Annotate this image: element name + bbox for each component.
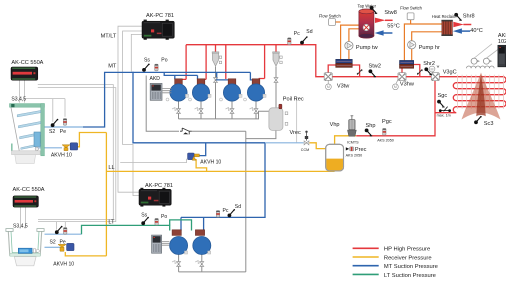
svg-text:Po: Po <box>161 214 167 220</box>
svg-text:HP High Pressure: HP High Pressure <box>384 247 430 253</box>
svg-text:AKS 2050: AKS 2050 <box>346 154 363 158</box>
svg-text:Shr2: Shr2 <box>423 61 435 67</box>
svg-text:V3gC: V3gC <box>443 70 457 76</box>
svg-text:AKVH 10: AKVH 10 <box>200 160 221 166</box>
svg-text:AK-CC 550A: AK-CC 550A <box>13 187 45 193</box>
svg-text:Flow Switch: Flow Switch <box>400 6 423 11</box>
svg-text:AK-CC 550A: AK-CC 550A <box>11 60 43 66</box>
svg-text:V3hw: V3hw <box>400 82 415 88</box>
svg-text:Poil Rec: Poil Rec <box>283 97 304 103</box>
svg-text:Ss: Ss <box>144 58 150 64</box>
svg-text:AKD: AKD <box>150 76 161 82</box>
svg-text:Sgc: Sgc <box>438 93 448 99</box>
svg-text:Vhp: Vhp <box>330 122 340 128</box>
svg-text:Shp: Shp <box>366 123 376 129</box>
svg-text:Ss: Ss <box>141 213 147 219</box>
svg-text:S3,4,5: S3,4,5 <box>11 97 26 103</box>
svg-text:Shr8: Shr8 <box>463 14 475 20</box>
svg-text:LL: LL <box>108 165 114 171</box>
svg-text:Pgc: Pgc <box>382 119 392 125</box>
svg-text:55°C: 55°C <box>387 24 400 30</box>
svg-text:Pc: Pc <box>223 208 229 214</box>
svg-text:Receiver Pressure: Receiver Pressure <box>384 255 432 261</box>
svg-text:S3,4,5: S3,4,5 <box>13 224 28 230</box>
svg-text:Prec: Prec <box>355 147 367 153</box>
svg-text:Flow Switch: Flow Switch <box>319 14 342 19</box>
svg-text:MT/LT: MT/LT <box>101 34 117 40</box>
svg-text:LT: LT <box>108 220 115 226</box>
svg-text:Heat Reclaim: Heat Reclaim <box>432 14 457 19</box>
svg-text:Vrec: Vrec <box>290 130 301 136</box>
svg-text:max. 1m: max. 1m <box>437 114 451 118</box>
svg-text:Pump tw: Pump tw <box>356 45 379 51</box>
svg-text:AKVH 10: AKVH 10 <box>53 261 74 267</box>
svg-text:Stw2: Stw2 <box>369 64 381 70</box>
svg-text:AK-PC 781: AK-PC 781 <box>146 13 174 19</box>
svg-text:MT: MT <box>108 64 117 70</box>
svg-text:LT Suction Pressure: LT Suction Pressure <box>384 273 436 279</box>
svg-text:102: 102 <box>498 39 506 45</box>
svg-text:Po: Po <box>161 57 167 63</box>
svg-text:MT Suction Pressure: MT Suction Pressure <box>384 264 438 270</box>
svg-text:Pump hr: Pump hr <box>419 45 440 51</box>
svg-text:ICMTS: ICMTS <box>347 140 359 144</box>
svg-text:AKS 2050: AKS 2050 <box>377 138 394 142</box>
svg-text:Sd: Sd <box>235 204 241 210</box>
svg-text:S2: S2 <box>49 129 55 135</box>
svg-text:Stw8: Stw8 <box>384 10 396 16</box>
svg-text:40°C: 40°C <box>470 28 483 34</box>
svg-text:Sd: Sd <box>306 29 312 35</box>
svg-text:V3tw: V3tw <box>337 84 350 90</box>
svg-text:Tap Water: Tap Water <box>358 4 377 9</box>
svg-text:AK-PC 781: AK-PC 781 <box>145 183 173 189</box>
svg-text:Pc: Pc <box>294 31 300 37</box>
svg-text:AKVH 10: AKVH 10 <box>51 153 72 159</box>
svg-text:Sc3: Sc3 <box>484 121 494 127</box>
svg-text:CCM: CCM <box>301 148 309 152</box>
svg-text:Pe: Pe <box>60 129 66 135</box>
svg-text:S2: S2 <box>50 240 56 246</box>
svg-text:Pe: Pe <box>60 240 66 246</box>
